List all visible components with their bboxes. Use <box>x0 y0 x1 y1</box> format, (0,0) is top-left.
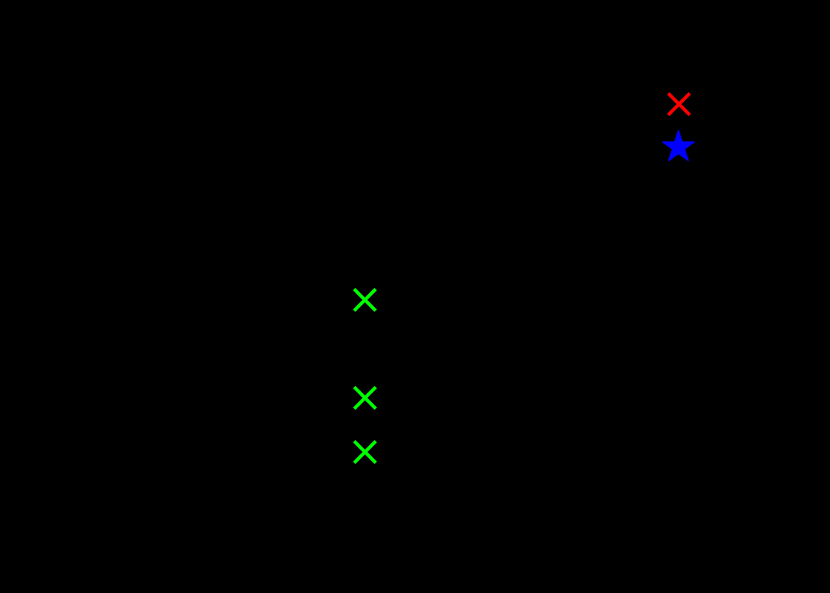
marker: red x (series 1) <box>668 93 690 115</box>
marker: blue star (series 2) <box>663 130 695 160</box>
marker: green x point 1 <box>354 289 376 311</box>
marker: green x point 3 <box>354 441 376 463</box>
marker: green x point 2 <box>354 387 376 409</box>
